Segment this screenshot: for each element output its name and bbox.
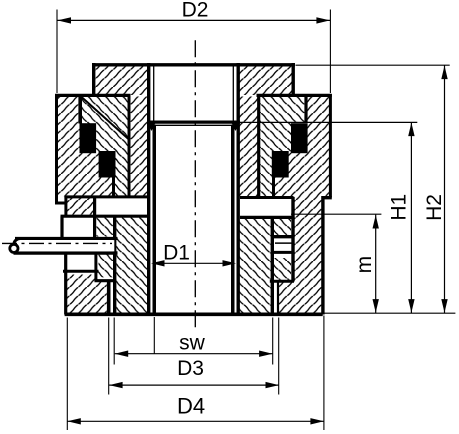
svg-text:D4: D4: [177, 394, 205, 419]
svg-text:sw: sw: [179, 331, 206, 354]
svg-text:D1: D1: [163, 242, 190, 265]
svg-text:H1: H1: [388, 194, 411, 221]
svg-text:H2: H2: [423, 194, 446, 221]
svg-text:D2: D2: [182, 0, 209, 22]
svg-text:D3: D3: [177, 357, 204, 380]
svg-text:m: m: [353, 256, 376, 274]
